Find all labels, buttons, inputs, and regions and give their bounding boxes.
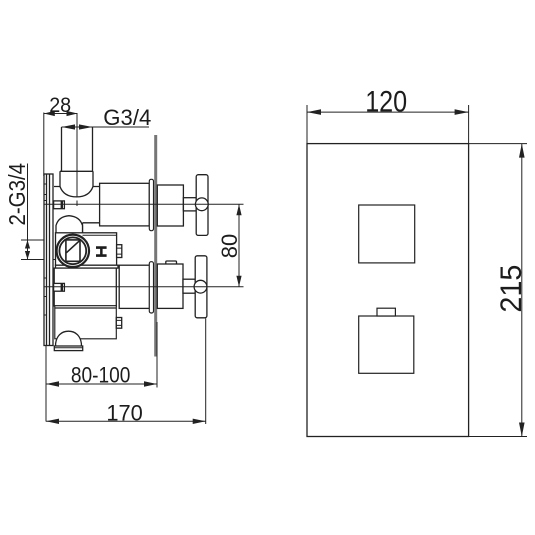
pipe centerline (dash-dot) — [76, 114, 78, 207]
lower handle body — [157, 264, 183, 308]
upper square control — [359, 205, 415, 263]
upper valve centerline — [44, 203, 244, 205]
upper handle stem — [183, 198, 196, 211]
upper body neck shoulder — [83, 223, 100, 233]
lower square indicator tab — [377, 308, 395, 316]
lower body right tab — [116, 318, 121, 329]
dimension 80 arrows — [236, 204, 241, 286]
dimension 215 line — [521, 144, 523, 437]
cartridge circle inner — [59, 237, 86, 264]
G3/4 leader shelf line — [62, 126, 150, 128]
2-G3/4 extension line lower — [21, 259, 66, 261]
lower body top inner line — [55, 307, 117, 309]
mounting plate inner lines — [47, 174, 50, 346]
svg-text:2-G3/4: 2-G3/4 — [4, 163, 30, 226]
H-block lid inner line — [83, 234, 117, 236]
front plate rectangle — [307, 144, 469, 437]
dimension 28 arrows — [44, 111, 78, 116]
cartridge diagonal — [66, 240, 80, 253]
2-G3/4 port dimension double arrow — [27, 240, 29, 260]
bottom outlet dome — [56, 331, 82, 346]
elbow body under pipe — [60, 171, 93, 197]
dimension 80-100 right extension line — [156, 322, 158, 388]
svg-text:28: 28 — [49, 93, 71, 117]
lower handle button — [166, 261, 177, 265]
dimension 215 extension lines — [469, 144, 527, 437]
dimension 80-100 line — [46, 383, 157, 385]
cartridge square — [66, 240, 80, 261]
svg-text:215: 215 — [495, 265, 528, 313]
wall plate (grey, edge view) — [154, 135, 157, 357]
upper inlet screw — [54, 201, 65, 209]
svg-text:G3/4: G3/4 — [103, 105, 151, 130]
lower handle hub circle — [194, 280, 207, 293]
H-block base band — [56, 265, 119, 268]
mounting plate slot ticks — [44, 184, 47, 315]
upper handle bar — [196, 175, 208, 236]
G3/4 arrows (pipe OD) — [62, 124, 93, 129]
extension line left (shared by dims 28 / 80-100 / 170) — [43, 113, 45, 177]
lower cartridge cylinder — [119, 265, 149, 308]
lower valve centerline — [44, 286, 244, 288]
svg-text:170: 170 — [106, 400, 143, 425]
dimension 170 line — [46, 420, 206, 422]
inlet pipe (top) — [62, 127, 93, 171]
dimension 170 right extension line — [205, 318, 207, 424]
thermostat dome cap — [56, 216, 83, 233]
lower handle stem — [183, 279, 195, 293]
2-G3/4 extension line upper — [21, 239, 44, 241]
lower handle bar — [195, 256, 207, 318]
lower square control — [359, 316, 414, 373]
hot marking H (rotated) — [96, 246, 107, 257]
elbow side ticks — [54, 186, 100, 188]
upper handle hub circle — [195, 198, 208, 211]
middle body section — [54, 268, 116, 306]
upper escutcheon (edge view) — [149, 179, 153, 230]
dimension 120 line — [307, 111, 469, 113]
lower escutcheon (edge view) — [149, 262, 153, 313]
dimension 170 arrows — [46, 419, 206, 424]
mounting plate — [44, 174, 53, 346]
lower body block — [55, 306, 117, 339]
2-G3/4 leader shelf line (vertical) — [27, 164, 29, 240]
dimension 80 line (right of handles) — [238, 204, 240, 286]
pipe union joint line — [60, 170, 93, 172]
svg-text:120: 120 — [365, 86, 407, 119]
upper handle body — [157, 185, 183, 226]
thermostat H-block body — [56, 233, 117, 265]
dimension 120 extension lines — [307, 105, 469, 144]
H-block right stop screw — [117, 245, 122, 258]
lower inlet screw — [54, 283, 65, 291]
bottom outlet flange — [54, 346, 82, 351]
svg-text:80: 80 — [217, 234, 242, 259]
svg-text:80-100: 80-100 — [71, 363, 131, 388]
dimension 120 arrows — [307, 109, 469, 115]
dimension 28 shelf line — [44, 113, 78, 115]
dimension 80-100 arrows — [46, 381, 157, 386]
upper cartridge cylinder — [100, 183, 150, 226]
dimension 215 arrows — [519, 144, 525, 437]
cartridge circle outer — [57, 235, 89, 267]
